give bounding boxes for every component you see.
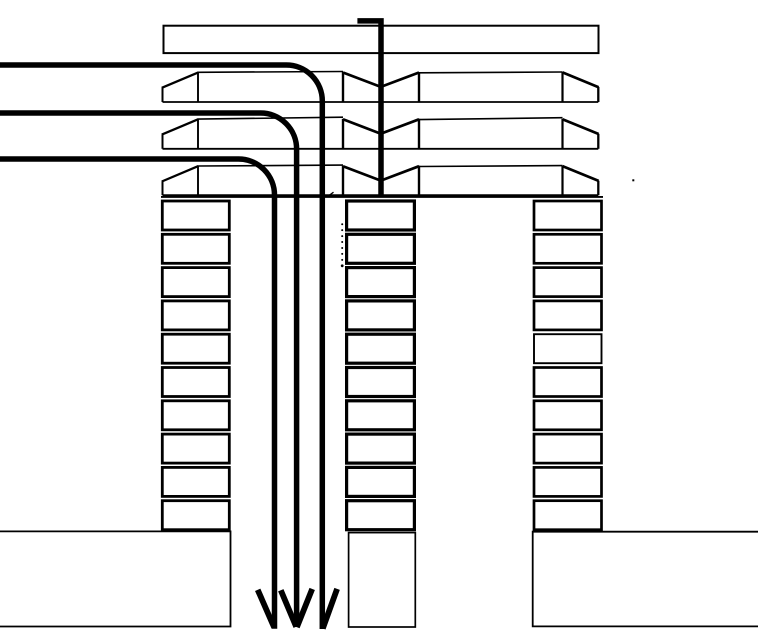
- current path line 1 (top): [0, 65, 322, 629]
- arrowhead V left barb of line 2: [281, 590, 296, 627]
- center pillar stack: [347, 201, 415, 530]
- left substrate block: [0, 531, 231, 626]
- stray tick mark: [330, 192, 334, 195]
- word line slab WL1: [162, 72, 599, 103]
- word line slab WL3: [162, 165, 599, 195]
- center substrate block: [349, 533, 416, 627]
- left pillar stack: [162, 201, 229, 530]
- current path line 3 (bottom): [0, 159, 275, 629]
- bit line top rectangle: [164, 26, 599, 53]
- dotted reference line: [341, 223, 344, 267]
- stray dot: [632, 179, 634, 181]
- center channel vertical line: [357, 21, 381, 197]
- right substrate block: [533, 532, 758, 627]
- current path line 2 (middle): [0, 113, 297, 627]
- arrowhead right barb of line 1: [323, 589, 337, 629]
- arrowhead left barb of line 3: [258, 590, 275, 628]
- substrate surface line: [161, 196, 603, 198]
- right pillar stack: [534, 201, 602, 530]
- word line slab WL2: [162, 117, 599, 149]
- arrowhead V right barb of line 2: [297, 589, 312, 627]
